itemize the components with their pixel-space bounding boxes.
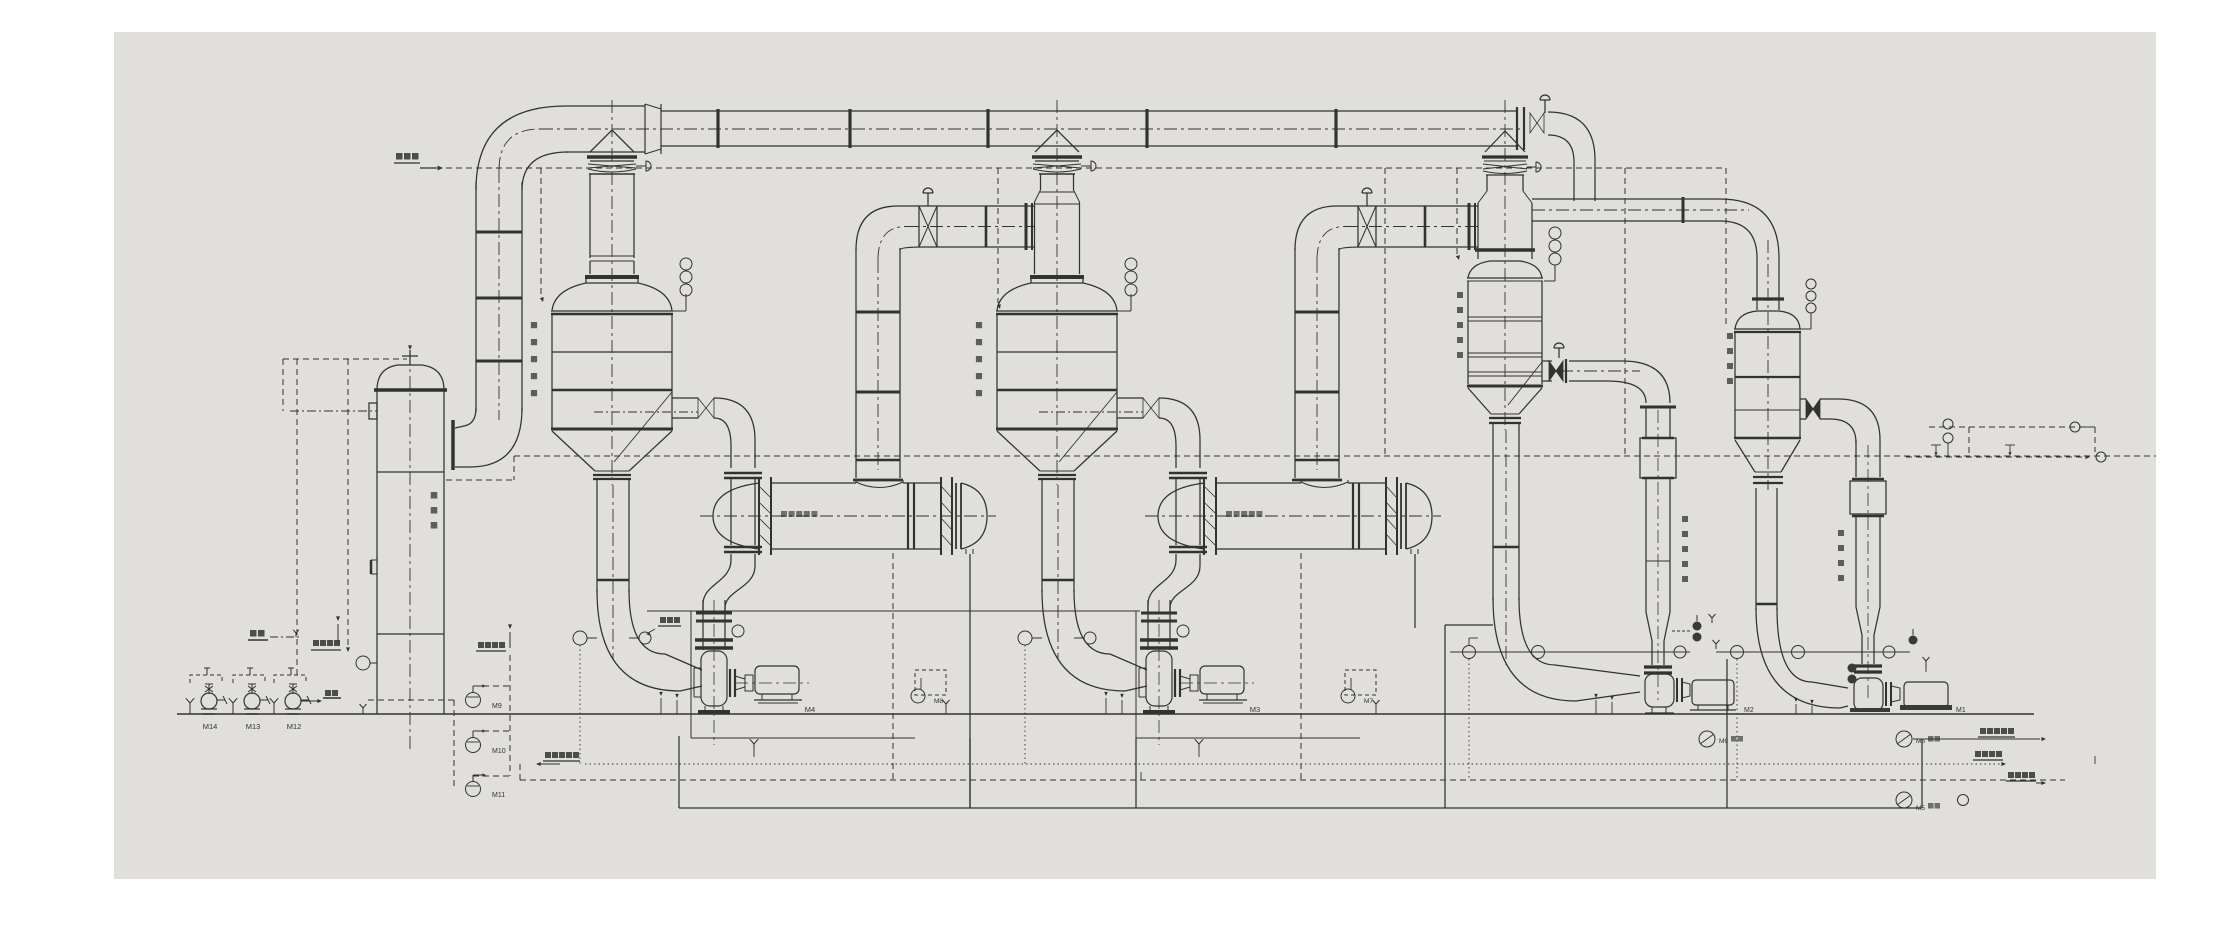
vessel EV-C label [1457, 292, 1463, 358]
M5 distillate pump circles [1896, 731, 1969, 812]
vessel EV-D label [1727, 333, 1733, 384]
dashed control drop to vessel A [540, 168, 542, 296]
EV-D side outlet to separator S2 [1800, 399, 1880, 443]
vessel EV-A level instrument stack [642, 258, 692, 311]
drain header links for small pumps [301, 690, 341, 703]
heater HX-A right dome [961, 483, 987, 549]
label to drain treatment [1973, 751, 2003, 760]
heater HX-B left dome [1158, 483, 1204, 549]
separator S1 label [1682, 516, 1688, 582]
vessel EV-B label [976, 322, 982, 396]
heater HX-A label [781, 511, 787, 517]
svg-text:M4: M4 [805, 705, 815, 714]
dark control valves near M2 [1670, 614, 1716, 642]
vessel EV-A nozzle centerline [594, 411, 698, 413]
HX-A to EV-B vapor horizontal run with valve [898, 188, 1035, 250]
vessel EV-A internal diagonal [614, 392, 672, 462]
pump M4 centerline [713, 600, 715, 745]
main vapor duct riser to condenser [453, 106, 568, 470]
heater HX-B shell [1145, 477, 1441, 555]
heater HX-B left tube sheet [1204, 477, 1216, 555]
dark control valves near M1 [1848, 629, 1930, 684]
vessel EV-B internal diagonal [1059, 392, 1117, 462]
instrument circle pairs at vessel down pipes [573, 625, 1189, 764]
small pump M12 [270, 668, 311, 731]
vessel EV-C down pipe to pump M2 [1493, 423, 1640, 701]
heater HX-A right tube sheet [940, 477, 942, 555]
HX-A to EV-B vapor riser pipe [853, 206, 924, 480]
vessel EV-D feed neck [1752, 258, 1784, 310]
suction mini arrows M2 [1594, 694, 1614, 714]
label to next process [2006, 772, 2046, 785]
vessel EV-A centerline [611, 100, 613, 485]
pump M3 foundation lines [1136, 611, 1360, 738]
EV-C side outlet to separator S1 [1542, 343, 1676, 407]
vessel EV-C hat and bellows [1482, 131, 1541, 174]
instrument line pump M1 group [1713, 640, 1911, 780]
svg-text:M9: M9 [492, 703, 502, 710]
instrument M7 with dashed box [1341, 670, 1380, 714]
condenser vertical centerline [409, 352, 411, 752]
pump M4 motor [714, 600, 815, 745]
dashed control drop to vessel B [997, 168, 999, 303]
vessel EV-A neck [585, 174, 639, 283]
vessel EV-B neck [1030, 174, 1084, 283]
vessel EV-B discharge down pipe [1042, 479, 1147, 691]
dotted distillate recovery line [536, 752, 2006, 766]
pump M3 centerline [1158, 600, 1160, 745]
suction mini arrows M3 [1104, 692, 1203, 757]
vessel EV-B level instrument stack [1087, 258, 1137, 311]
pump M3 casing [1139, 651, 1175, 714]
vessel EV-A label [531, 322, 537, 396]
dashed control drop right section [1384, 168, 1386, 456]
svg-text:M3: M3 [1250, 705, 1260, 714]
svg-text:M13: M13 [246, 722, 261, 731]
heater HX-B centerline [1145, 515, 1441, 517]
separator S1 (first effect heater) [1640, 407, 1676, 700]
dashed control box left of condenser [283, 359, 407, 675]
vessel EV-B body [996, 100, 1143, 485]
dashed bottom control bus [520, 764, 2065, 780]
vessel EV-A discharge down pipe [597, 479, 702, 691]
pump M1 [1850, 678, 1966, 714]
svg-text:M7: M7 [1364, 698, 1373, 705]
vessel EV-C control drop dashed [1456, 168, 1460, 260]
header centerline [540, 128, 1524, 130]
label 加热蒸汽 at pump M4 [646, 617, 681, 636]
svg-text:M12: M12 [287, 722, 302, 731]
label to distillate tank with arrow [1913, 728, 2046, 741]
vessel EV-D down pipe to pump M1 [1756, 488, 1848, 708]
separator S2 [1850, 440, 1886, 700]
top vapor header pipe [540, 104, 1524, 154]
heater HX-A left dome [713, 483, 759, 549]
pump M4 casing [694, 651, 730, 714]
heater HX-A left tube sheet [759, 477, 771, 555]
ground line [177, 713, 2034, 715]
dashed hood above M12 [274, 675, 306, 683]
heater HX-A outlet line down to bottom header [893, 553, 970, 808]
dashed instrument line condenser to M9 box [360, 700, 455, 714]
separator S2 label [1838, 530, 1844, 581]
vessel EV-C neck [1475, 175, 1535, 259]
steam label near condenser 加热蒸汽 [311, 616, 341, 650]
evaporator separator vessel EV-B hat [1032, 130, 1082, 157]
vessel EV-A bottom cone [552, 431, 595, 471]
heater HX-B right dome [1406, 483, 1432, 549]
svg-text:M8: M8 [934, 698, 943, 705]
heater HX-A shell [700, 477, 996, 555]
vessel EV-C instrument stack [1544, 227, 1561, 281]
blowdown label and dash-dot lead at left [248, 630, 300, 640]
label 加热蒸汽 at M9 box top [478, 642, 484, 648]
vessel EV-B centerline [1056, 100, 1058, 485]
vessel EV-A body [551, 100, 698, 485]
svg-text:M10: M10 [492, 748, 506, 755]
small pump M13 [229, 668, 270, 731]
dashed hood above M14 [190, 675, 222, 683]
long dashed mid bus at y456 [446, 456, 2156, 480]
condenser label 冷凝器 [431, 492, 438, 499]
pump M4 suction flanges [695, 600, 733, 650]
HX-B to EV-C vapor riser pipe [1292, 206, 1363, 480]
pump M3 suction flanges [1140, 600, 1178, 650]
svg-text:M11: M11 [492, 792, 505, 799]
heater HX-B outlet line down to bottom header [1301, 553, 1415, 780]
vessel EV-D body [1734, 240, 1801, 490]
heater HX-B right tube sheet [1385, 477, 1387, 555]
vessel EV-B expansion bellows [1033, 161, 1096, 172]
pump M4 foundation lines [647, 611, 1140, 738]
instrument T at condenser base [356, 656, 377, 670]
small pump M14 [186, 668, 227, 731]
duct centerline [498, 170, 500, 420]
heater HX-B label [1226, 511, 1232, 517]
vessel EV-B side outlet and S-pipe to heater dome [1117, 398, 1207, 611]
dashed hood above M13 [233, 675, 265, 683]
vessel EV-C body [1467, 100, 1543, 430]
bottom solid collection header [679, 625, 1922, 808]
vessel EV-B bottom cone [997, 431, 1040, 471]
heater HX-A centerline [700, 515, 996, 517]
suction mini arrows M1 [1794, 698, 1814, 714]
heater HX-A drain [965, 549, 967, 554]
vapor run EV-C to EV-D [1532, 197, 1779, 258]
vessel EV-D instrument stack [1794, 279, 1816, 329]
wash water dashed line 清洗水 [394, 153, 1726, 456]
pump M2 [1645, 674, 1754, 714]
svg-text:M1: M1 [1956, 707, 1966, 714]
instrument M8 with dashed box [911, 670, 950, 714]
instrument line pump M2 group [1450, 638, 1690, 780]
instrument chain M9 M10 M11 [454, 624, 512, 799]
evaporator separator vessel EV-A hat [587, 130, 637, 157]
feed drop from header to EV-C with valve [1530, 95, 1595, 201]
small arrows on dashed bus right [1141, 756, 2095, 780]
suction mini arrows M4 [659, 692, 758, 757]
svg-text:M2: M2 [1744, 707, 1754, 714]
svg-text:M14: M14 [203, 722, 218, 731]
vessel EV-B nozzle centerline [1039, 411, 1143, 413]
pump M3 motor [1159, 600, 1260, 745]
heater HX-B drain [1410, 549, 1412, 554]
HX-B to EV-C vapor horizontal run with valve [1337, 188, 1478, 250]
condenser column 冷凝器 [369, 345, 447, 752]
header flange ticks [716, 109, 719, 148]
M6 recirculation pump circle [1699, 731, 1743, 747]
vessel EV-A expansion bellows [588, 161, 651, 172]
right side instrument cluster on dashed lines [1906, 419, 2106, 462]
vessel EV-A side outlet and S-pipe to heater dome [672, 398, 762, 611]
